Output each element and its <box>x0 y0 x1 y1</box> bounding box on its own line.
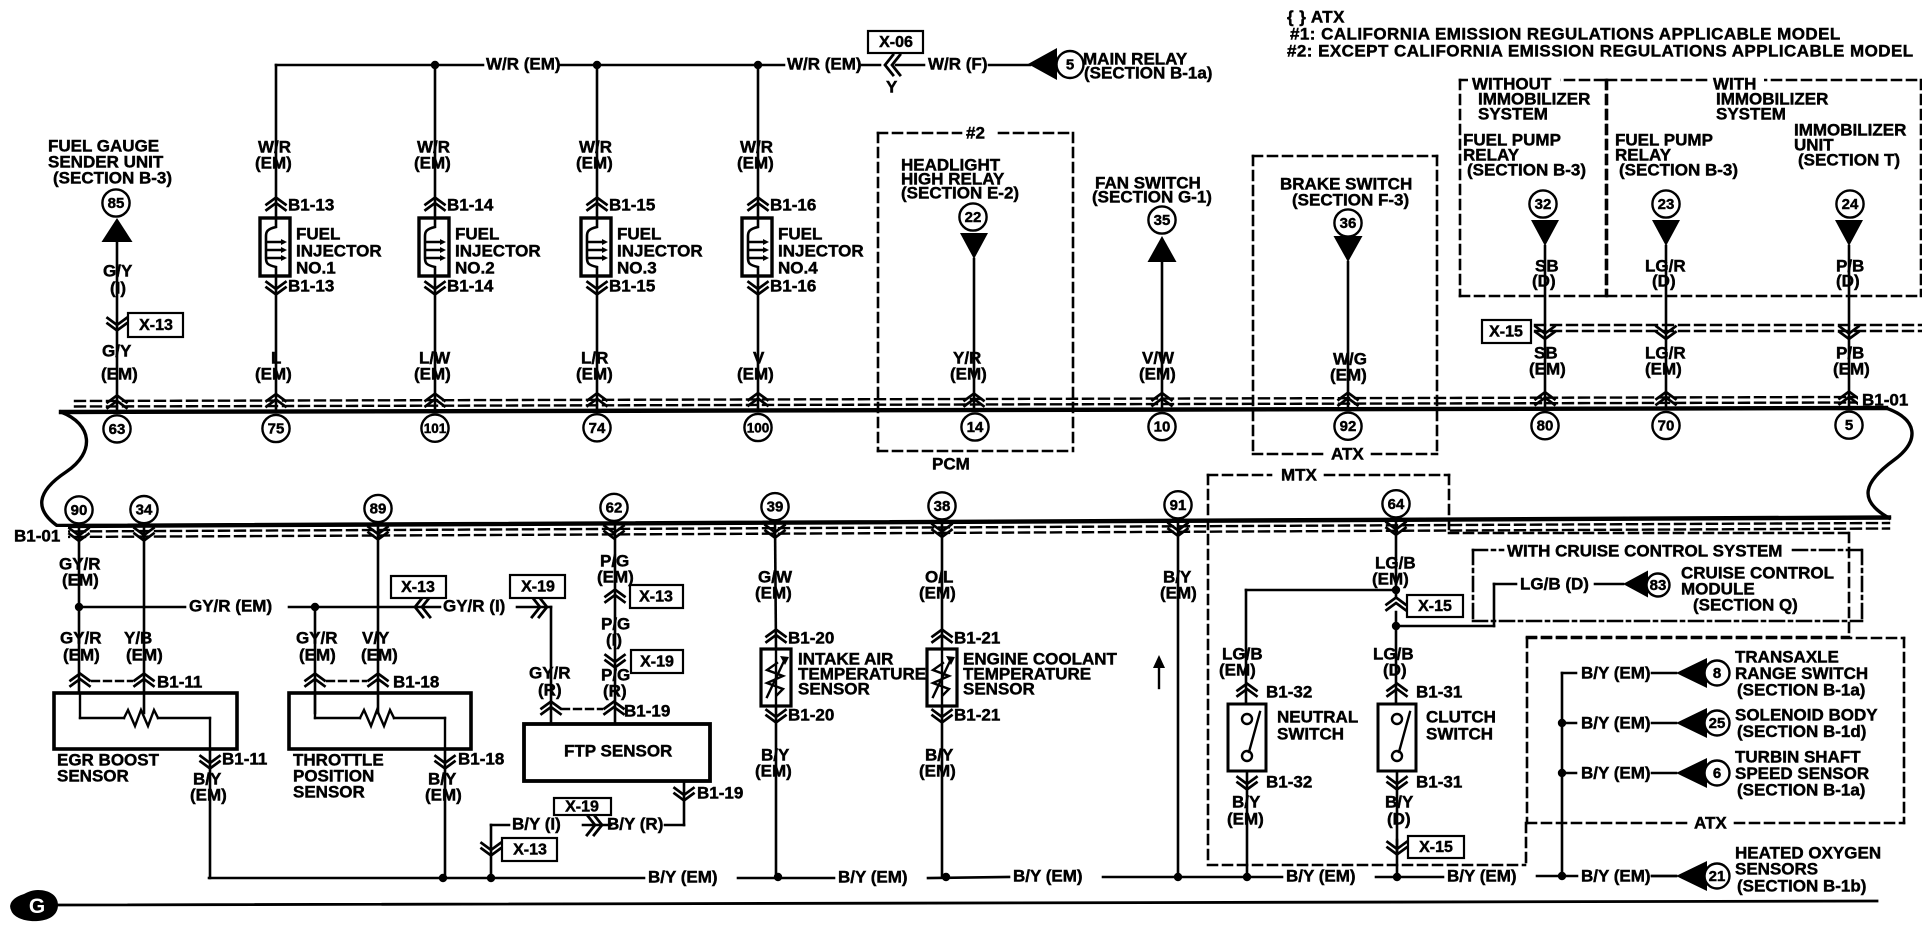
pin 89 chevron <box>369 527 388 540</box>
connector X-13 on P/G <box>606 585 684 608</box>
svg-text:B1-15: B1-15 <box>609 276 655 295</box>
immobilizer unit label <box>1794 120 1906 169</box>
ATX dashed box <box>1527 638 1904 832</box>
svg-text:70: 70 <box>1658 418 1675 435</box>
svg-text:90: 90 <box>71 502 88 519</box>
pin 14 chevron <box>965 394 984 407</box>
immobilizer unit pin 24 <box>1836 190 1863 217</box>
pin 101 <box>421 415 448 442</box>
connector X-13 on B/Y <box>482 838 558 861</box>
svg-text:(D): (D) <box>1836 271 1860 290</box>
svg-text:85: 85 <box>108 195 125 212</box>
svg-text:25: 25 <box>1709 715 1726 732</box>
fan switch arrow <box>1148 236 1177 262</box>
svg-text:(EM): (EM) <box>190 785 227 804</box>
svg-text:(SECTION B-1a): (SECTION B-1a) <box>1737 680 1865 699</box>
wire Y/B (EM) <box>124 526 163 713</box>
pin 100 chevron <box>749 393 768 406</box>
svg-text:X-15: X-15 <box>1419 839 1453 856</box>
fuel gauge sender unit label <box>48 136 172 187</box>
svg-text:(D): (D) <box>1383 660 1407 679</box>
svg-text:B1-13: B1-13 <box>288 195 334 214</box>
pin 101 chevron <box>426 394 445 407</box>
transaxle row 8 <box>1562 647 1868 699</box>
svg-text:(SECTION B-1a): (SECTION B-1a) <box>1084 63 1212 82</box>
wire G/Y (I) <box>103 242 133 412</box>
pin 62 chevron <box>605 526 624 539</box>
wire SB (EM) <box>1529 343 1566 378</box>
wire W/R (F) <box>896 54 1030 73</box>
connector X-15 on B/Y (D) <box>1388 836 1465 858</box>
svg-text:39: 39 <box>767 499 784 516</box>
svg-text:#2: #2 <box>966 123 985 142</box>
pin 89 <box>364 495 391 522</box>
brake switch label <box>1280 174 1412 209</box>
svg-text:WITH CRUISE CONTROL SYSTEM: WITH CRUISE CONTROL SYSTEM <box>1507 541 1782 560</box>
wire V/Y (EM) <box>361 525 398 714</box>
pin 75 chevron <box>267 394 286 407</box>
svg-text:B1-32: B1-32 <box>1266 772 1312 791</box>
svg-text:(EM): (EM) <box>1529 359 1566 378</box>
throttle position sensor box <box>289 693 471 801</box>
svg-text:(EM): (EM) <box>950 364 987 383</box>
svg-text:(EM): (EM) <box>737 364 774 383</box>
svg-text:G: G <box>29 895 45 918</box>
intake air temperature sensor <box>761 649 926 706</box>
svg-text:ATX: ATX <box>1694 813 1727 832</box>
svg-text:(EM): (EM) <box>255 364 292 383</box>
svg-text:B1-32: B1-32 <box>1266 682 1312 701</box>
svg-text:(R): (R) <box>603 681 627 700</box>
svg-text:B1-31: B1-31 <box>1416 682 1462 701</box>
svg-text:B1-18: B1-18 <box>393 672 439 691</box>
svg-text:(EM): (EM) <box>1227 809 1264 828</box>
connector B1-32 top <box>1238 682 1313 701</box>
svg-text:92: 92 <box>1340 418 1357 435</box>
svg-text:B/Y (EM): B/Y (EM) <box>1447 866 1517 885</box>
cruise outer dashed box <box>1449 533 1849 637</box>
X-15 chevron SB <box>1536 327 1555 340</box>
svg-text:(EM): (EM) <box>1372 569 1409 588</box>
connector B1-21 bottom <box>933 705 1001 724</box>
wire P/G (EM) <box>597 523 634 724</box>
connector B1-20 bottom <box>767 705 835 724</box>
svg-text:B1-21: B1-21 <box>954 705 1000 724</box>
svg-text:B1-31: B1-31 <box>1416 772 1462 791</box>
headlight relay arrow <box>960 233 988 259</box>
connector X-13 on G/Y <box>108 313 184 337</box>
svg-text:34: 34 <box>136 502 153 519</box>
wire B/Y clutch to bus <box>1396 840 1399 876</box>
svg-text:B/Y (R): B/Y (R) <box>607 814 663 833</box>
svg-text:B1-14: B1-14 <box>447 276 494 295</box>
svg-text:B1-16: B1-16 <box>770 276 816 295</box>
svg-text:B/Y (EM): B/Y (EM) <box>1286 866 1356 885</box>
fuel injector NO.3 <box>581 218 703 277</box>
fuel pump relay label (without immobilizer) <box>1463 130 1586 179</box>
FTP sensor box <box>524 724 710 781</box>
svg-text:(D): (D) <box>1532 271 1556 290</box>
junction dots on W/R feed <box>431 61 762 69</box>
svg-text:(EM): (EM) <box>1330 365 1367 384</box>
connector B1-18 top <box>306 672 440 691</box>
svg-text:B1-14: B1-14 <box>447 195 494 214</box>
svg-text:62: 62 <box>606 499 623 516</box>
connector B1-11 bottom <box>201 749 268 768</box>
branch wire to neutral switch <box>1246 590 1396 704</box>
wire V (EM) <box>737 276 774 411</box>
svg-text:(EM): (EM) <box>299 645 336 664</box>
pin 5 <box>1835 412 1862 439</box>
EGR boost sensor box <box>54 693 237 785</box>
PCM bottom rail B1-01 <box>12 518 1889 546</box>
svg-text:(EM): (EM) <box>919 761 956 780</box>
svg-text:SENSOR: SENSOR <box>293 782 365 801</box>
wire V/W (EM) <box>1139 262 1176 410</box>
svg-text:(SECTION B-1d): (SECTION B-1d) <box>1737 722 1866 741</box>
svg-text:(R): (R) <box>538 680 562 699</box>
svg-text:100: 100 <box>747 421 770 436</box>
svg-text:(EM): (EM) <box>425 785 462 804</box>
svg-text:(EM): (EM) <box>1645 359 1682 378</box>
svg-text:80: 80 <box>1537 418 1554 435</box>
svg-text:(EM): (EM) <box>62 570 99 589</box>
svg-text:SENSOR: SENSOR <box>798 679 870 698</box>
ATX vertical B/Y wire <box>1561 673 1564 876</box>
MTX dashed box <box>1208 465 1526 865</box>
svg-text:X-13: X-13 <box>639 589 673 606</box>
svg-text:(EM): (EM) <box>63 645 100 664</box>
main relay arrow 5 <box>1028 48 1212 82</box>
svg-text:NO.1: NO.1 <box>296 258 336 277</box>
svg-text:X-13: X-13 <box>513 842 547 859</box>
wire B/Y (EM) ground bus <box>209 866 1676 886</box>
junction dot GY/R <box>75 603 83 611</box>
wire LG/R (D) <box>1645 246 1686 409</box>
svg-text:89: 89 <box>370 501 387 518</box>
pin 70 chevron <box>1657 392 1676 405</box>
engine coolant temperature sensor <box>927 649 1118 706</box>
svg-text:B1-18: B1-18 <box>458 749 504 768</box>
svg-text:B1-01: B1-01 <box>14 526 60 545</box>
fan switch pin 35 <box>1148 206 1175 233</box>
junction dot LG/B (D) <box>1392 622 1400 630</box>
svg-text:B/Y (EM): B/Y (EM) <box>1581 713 1651 732</box>
svg-text:83: 83 <box>1650 577 1667 594</box>
pin 38 chevron <box>933 524 952 537</box>
PCM dashed box #2 <box>878 123 1073 473</box>
svg-text:B1-11: B1-11 <box>222 749 267 768</box>
wire B/Y (D) <box>1385 771 1414 854</box>
top rail right S-curve <box>1868 408 1912 518</box>
fuel injector NO.4 <box>742 218 864 277</box>
svg-text:B1-15: B1-15 <box>609 195 655 214</box>
svg-text:63: 63 <box>109 421 126 438</box>
junction dots B/Y bus <box>439 872 1566 882</box>
svg-text:B/Y (EM): B/Y (EM) <box>648 867 718 886</box>
pin 10 chevron <box>1153 393 1172 406</box>
svg-text:74: 74 <box>589 420 606 437</box>
svg-text:NO.4: NO.4 <box>778 258 818 277</box>
svg-text:NO.3: NO.3 <box>617 258 657 277</box>
svg-text:(SECTION F-3): (SECTION F-3) <box>1292 190 1409 209</box>
svg-text:G/Y: G/Y <box>102 341 132 360</box>
brake switch pin 36 <box>1334 209 1361 236</box>
junction dot LG/B <box>1392 586 1400 594</box>
wire W/R (EM) to injector NO.3 <box>576 65 613 218</box>
headlight relay pin 22 <box>959 203 986 230</box>
svg-text:5: 5 <box>1066 57 1074 74</box>
pin 5 chevron <box>1840 392 1859 405</box>
svg-text:(D): (D) <box>1387 809 1411 828</box>
svg-text:X-15: X-15 <box>1489 324 1523 341</box>
transaxle row 25 <box>1562 705 1878 741</box>
svg-text:(EM): (EM) <box>576 153 613 172</box>
pin 38 <box>928 492 955 519</box>
svg-text:(I): (I) <box>606 630 622 649</box>
svg-text:(SECTION B-3): (SECTION B-3) <box>1619 160 1738 179</box>
fuel pump relay 23 arrow <box>1652 220 1680 246</box>
svg-text:(EM): (EM) <box>576 364 613 383</box>
svg-text:B/Y (EM): B/Y (EM) <box>1581 763 1651 782</box>
svg-text:W/R (EM): W/R (EM) <box>486 54 561 73</box>
svg-text:X-13: X-13 <box>139 317 173 334</box>
wire G/Y (EM) to pin 63 <box>101 341 138 383</box>
svg-text:X-15: X-15 <box>1418 598 1452 615</box>
svg-text:(SECTION B-1a): (SECTION B-1a) <box>1737 780 1865 799</box>
wire P/B (EM) <box>1833 343 1870 378</box>
connector X-13 on GY/R <box>391 576 446 617</box>
connector B1-21 top <box>933 628 1001 647</box>
wire B/Y (EM) from EGR <box>190 749 227 878</box>
pin 90 chevron <box>70 528 89 541</box>
svg-text:(EM): (EM) <box>414 364 451 383</box>
svg-text:B1-20: B1-20 <box>788 705 834 724</box>
connector X-06 <box>868 31 923 96</box>
svg-text:B1-20: B1-20 <box>788 628 834 647</box>
connector B1-15 bottom <box>588 276 656 295</box>
svg-text:#2: EXCEPT CALIFORNIA EMISSION: #2: EXCEPT CALIFORNIA EMISSION REGULATIO… <box>1287 41 1914 60</box>
cruise control module arrow 83 <box>1623 563 1834 614</box>
connector B1-31 top <box>1388 682 1463 701</box>
wire LG/B (EM) pin 64 <box>1372 520 1416 596</box>
wire B/Y to ground bus <box>490 825 493 878</box>
connector B1-11 top <box>71 672 203 691</box>
cruise control dash-dot box <box>1473 541 1862 621</box>
arrow up MTX <box>1153 655 1165 688</box>
connector X-15 row <box>1482 320 1921 343</box>
svg-text:36: 36 <box>1340 215 1357 232</box>
svg-text:91: 91 <box>1170 497 1187 514</box>
wire G/W (EM) <box>755 523 793 649</box>
svg-text:B/Y (EM): B/Y (EM) <box>1581 663 1651 682</box>
pin 92 chevron <box>1339 393 1358 406</box>
svg-text:6: 6 <box>1713 765 1721 782</box>
wire B/Y (R) <box>607 781 684 833</box>
wire B/Y (EM) from throttle <box>425 749 462 878</box>
wire LG/B (D) to cruise <box>1396 574 1623 626</box>
ground G symbol <box>10 890 58 921</box>
wire Y/R (EM) <box>950 259 987 410</box>
svg-text:LG/B (D): LG/B (D) <box>1520 574 1589 593</box>
svg-text:W/R (EM): W/R (EM) <box>787 54 862 73</box>
PCM top rail B1-01 <box>61 397 1886 412</box>
X-15 chevron P/B <box>1840 327 1859 340</box>
svg-text:(SECTION B-3): (SECTION B-3) <box>1467 160 1586 179</box>
connector X-19 on GY/R <box>510 575 565 617</box>
svg-text:(EM): (EM) <box>597 567 634 586</box>
wire B/Y (EM) pin 91 <box>1160 521 1197 877</box>
svg-text:(EM): (EM) <box>737 153 774 172</box>
wire SB (D) <box>1532 246 1559 409</box>
pin 100 <box>744 414 771 441</box>
fuel injector NO.2 <box>419 218 541 277</box>
wire W/G (EM) <box>1330 262 1367 409</box>
legend ATX note <box>1287 7 1914 60</box>
svg-text:X-06: X-06 <box>879 34 913 51</box>
svg-text:38: 38 <box>934 498 951 515</box>
fuel gauge arrow <box>102 218 133 242</box>
pin 63 chevron <box>108 395 127 408</box>
svg-text:(EM): (EM) <box>1833 359 1870 378</box>
clutch switch <box>1378 704 1496 771</box>
wire P/G (I) <box>601 614 630 649</box>
without immobilizer dashed box <box>1460 72 1606 296</box>
wire L/R (EM) <box>576 276 613 411</box>
svg-text:X-19: X-19 <box>565 799 599 816</box>
wire P/G (R) <box>601 665 630 700</box>
pin 34 <box>130 496 157 523</box>
svg-text:ATX: ATX <box>1331 444 1364 463</box>
connector B1-16 top <box>749 195 817 214</box>
connector X-19 on P/G <box>606 650 684 673</box>
pin 75 <box>262 415 289 442</box>
wire O/L (EM) <box>919 522 956 649</box>
svg-text:32: 32 <box>1535 196 1552 213</box>
wire W/R (EM) horizontal feed <box>276 54 880 73</box>
heated oxygen sensors arrow 21 <box>1652 843 1881 895</box>
wire LG/B (EM) label neutral <box>1219 644 1263 679</box>
svg-text:64: 64 <box>1388 496 1405 513</box>
pin 14 <box>961 413 988 440</box>
connector B1-18 bottom <box>436 749 505 768</box>
svg-text:(D): (D) <box>1652 271 1676 290</box>
svg-text:PCM: PCM <box>932 454 970 473</box>
connector B1-31 bottom <box>1388 772 1463 791</box>
pin 80 <box>1531 412 1558 439</box>
wire W/R (EM) to injector NO.2 <box>414 65 451 218</box>
wire GY/R (EM) pin 90 <box>59 526 102 693</box>
svg-text:B1-13: B1-13 <box>288 276 334 295</box>
connector B1-15 top <box>588 195 656 214</box>
svg-text:X-13: X-13 <box>401 579 435 596</box>
neutral switch <box>1228 704 1358 771</box>
connector B1-32 bottom <box>1238 772 1313 791</box>
svg-text:B1-19: B1-19 <box>697 783 743 802</box>
svg-text:(SECTION T): (SECTION T) <box>1798 150 1900 169</box>
pin 63 <box>103 415 130 442</box>
svg-text:101: 101 <box>424 421 447 436</box>
svg-text:10: 10 <box>1154 419 1171 436</box>
svg-text:23: 23 <box>1658 196 1675 213</box>
connector B1-14 top <box>426 195 494 214</box>
wire L/W (EM) <box>414 276 451 411</box>
svg-text:SENSOR: SENSOR <box>963 679 1035 698</box>
wire GY/R (EM) throttle <box>296 607 338 713</box>
svg-text:SWITCH: SWITCH <box>1277 724 1344 743</box>
svg-text:24: 24 <box>1842 196 1859 213</box>
brake switch arrow <box>1334 236 1363 262</box>
wire LG/R (EM) <box>1645 343 1686 378</box>
svg-text:SYSTEM: SYSTEM <box>1716 104 1786 123</box>
connector X-19 on B/Y <box>554 798 611 835</box>
pin 64 <box>1382 490 1409 517</box>
wire P/B (D) <box>1836 246 1864 408</box>
wire GY/R (R) <box>517 607 571 724</box>
svg-text:21: 21 <box>1709 868 1726 885</box>
svg-text:35: 35 <box>1154 212 1171 229</box>
svg-text:(SECTION B-1b): (SECTION B-1b) <box>1737 876 1866 895</box>
svg-text:W/R (F): W/R (F) <box>928 54 987 73</box>
transaxle row 6 <box>1562 747 1869 799</box>
svg-text:(SECTION B-3): (SECTION B-3) <box>53 168 172 187</box>
svg-text:75: 75 <box>268 421 285 438</box>
wire GY/R (EM) horizontal <box>79 596 440 615</box>
wire B/Y (EM) intake <box>755 706 792 877</box>
svg-text:(EM): (EM) <box>126 645 163 664</box>
svg-text:(EM): (EM) <box>755 583 792 602</box>
svg-text:14: 14 <box>967 419 984 436</box>
svg-text:FTP SENSOR: FTP SENSOR <box>564 741 672 760</box>
junction dots ATX <box>1558 719 1566 777</box>
svg-text:SYSTEM: SYSTEM <box>1478 104 1548 123</box>
pin 91 chevron <box>1169 523 1188 536</box>
svg-text:SWITCH: SWITCH <box>1426 724 1493 743</box>
svg-text:Y: Y <box>886 77 898 96</box>
svg-text:B1-16: B1-16 <box>770 195 816 214</box>
pin 91 <box>1164 491 1191 518</box>
pin 90 <box>65 496 92 523</box>
svg-text:5: 5 <box>1845 417 1853 434</box>
svg-text:(EM): (EM) <box>414 153 451 172</box>
wire B/Y (EM) coolant <box>919 706 956 877</box>
pin 34 chevron <box>135 528 154 541</box>
svg-text:B1-19: B1-19 <box>624 701 670 720</box>
svg-text:X-19: X-19 <box>640 654 674 671</box>
svg-text:(EM): (EM) <box>1160 583 1197 602</box>
svg-text:B/Y (EM): B/Y (EM) <box>838 867 908 886</box>
svg-text:(EM): (EM) <box>101 364 138 383</box>
pin 92 <box>1334 413 1361 440</box>
svg-text:GY/R (EM): GY/R (EM) <box>189 596 272 615</box>
pin 10 <box>1148 413 1175 440</box>
svg-text:B/Y (I): B/Y (I) <box>512 814 561 833</box>
junction dot GY/R throttle <box>311 603 319 611</box>
pin 62 <box>600 494 627 521</box>
X-15 chevron LG/R <box>1657 327 1676 340</box>
connector B1-13 bottom <box>267 276 335 295</box>
svg-text:(SECTION Q): (SECTION Q) <box>1693 595 1798 614</box>
pin 80 chevron <box>1536 392 1555 405</box>
svg-text:8: 8 <box>1713 665 1721 682</box>
wire B/Y (EM) neutral <box>1227 771 1264 876</box>
top rail left S-curve <box>42 412 87 527</box>
wire W/R (EM) to injector NO.1 <box>255 65 292 218</box>
svg-text:(EM): (EM) <box>1139 364 1176 383</box>
svg-text:(SECTION E-2): (SECTION E-2) <box>901 183 1019 202</box>
svg-text:(EM): (EM) <box>755 761 792 780</box>
svg-text:MTX: MTX <box>1281 465 1318 484</box>
